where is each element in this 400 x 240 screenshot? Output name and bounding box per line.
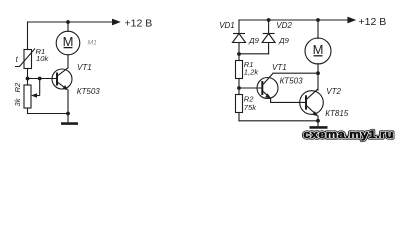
wire R1 bottom to R2 top — [27, 69, 29, 86]
svg-text:VT2: VT2 — [326, 87, 341, 96]
transistor VT2 KT815 — [300, 89, 324, 116]
svg-text:M1: M1 — [88, 39, 98, 46]
motor M (right) — [305, 38, 331, 64]
wire base — [28, 78, 57, 80]
wire VD2 bottom — [268, 43, 270, 54]
wire motor bottom to VT2 collector — [317, 64, 319, 91]
node diode bottom junction — [237, 52, 241, 56]
svg-text:M: M — [63, 34, 74, 49]
wire VT2 emitter down — [317, 116, 319, 121]
motor M1 — [56, 31, 80, 55]
svg-text:Д9: Д9 — [278, 36, 289, 45]
wire R1-R2 middle — [238, 79, 240, 95]
resistor R1 1,2k — [236, 61, 243, 79]
wire top rail right — [239, 19, 348, 21]
svg-text:+12 В: +12 В — [125, 17, 153, 29]
svg-text:R2: R2 — [13, 82, 22, 92]
diode VD2 Д9 — [262, 34, 275, 43]
svg-text:КТ815: КТ815 — [325, 109, 349, 118]
node ground junction right — [316, 119, 320, 123]
wire VD1 top — [238, 20, 240, 34]
node R1/R2 junction — [26, 77, 30, 81]
node wiper tap — [38, 77, 42, 81]
wire motor top — [67, 22, 69, 32]
node VD2 tap on rail — [267, 18, 271, 22]
+12V arrow left — [112, 19, 121, 26]
svg-text:VD1: VD1 — [219, 21, 235, 30]
svg-text:VT1: VT1 — [77, 63, 92, 72]
wire VT1 collector horizontal — [273, 72, 318, 74]
svg-text:M: M — [313, 42, 324, 57]
transistor VT1 KT503 (right) — [257, 73, 278, 102]
wire R2 bottom right — [238, 113, 240, 121]
wire bottom rail left — [28, 113, 69, 115]
svg-text:КТ503: КТ503 — [280, 76, 304, 85]
thermistor R1 10k — [15, 49, 35, 69]
svg-text:+12 В: +12 В — [359, 16, 387, 28]
wire R2 bottom — [27, 108, 29, 114]
resistor R2 75k — [236, 95, 243, 113]
potentiometer R2 3k — [24, 79, 40, 109]
wire VD1 bottom — [238, 43, 240, 61]
node emitter/ground junction — [66, 112, 70, 116]
ground (left) — [67, 114, 69, 123]
wire bottom rail right — [239, 120, 318, 122]
ground (right) — [317, 121, 319, 127]
wire VT1 emitter to VT2 base — [271, 101, 306, 103]
wire motor top right — [317, 20, 319, 39]
svg-text:10k: 10k — [36, 54, 49, 63]
+12V arrow right — [347, 17, 356, 24]
svg-text:1,2k: 1,2k — [244, 68, 260, 77]
wire VD2 top — [268, 20, 270, 34]
svg-text:VD2: VD2 — [276, 21, 292, 30]
svg-text:3k: 3k — [13, 97, 22, 106]
node top rail left — [66, 20, 70, 24]
transistor VT1 KT503 (left) — [52, 68, 72, 90]
watermark cxema.my1.ru — [303, 128, 394, 141]
node base junction right — [237, 86, 241, 90]
wire base VT1 right — [239, 87, 262, 89]
node motor tap on rail — [316, 18, 320, 22]
svg-text:КТ503: КТ503 — [77, 87, 101, 96]
wire top rail left — [28, 21, 114, 23]
wire motor bottom to collector — [67, 55, 69, 68]
node collector junction — [316, 71, 320, 75]
svg-text:75k: 75k — [244, 103, 257, 112]
diode VD1 Д9 — [233, 34, 246, 43]
svg-text:Д9: Д9 — [248, 36, 259, 45]
wire left branch vertical — [27, 22, 29, 50]
wire diode join — [239, 53, 269, 55]
svg-text:VT1: VT1 — [272, 63, 287, 72]
wire emitter down — [67, 90, 69, 114]
svg-text:cxema.my1.ru: cxema.my1.ru — [303, 128, 394, 141]
